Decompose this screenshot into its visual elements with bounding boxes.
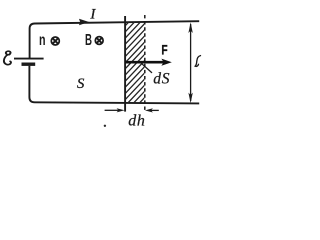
svg-text:S: S bbox=[77, 76, 85, 92]
hatched swept area dS bbox=[125, 4, 145, 124]
battery long plate bbox=[14, 58, 44, 60]
battery short thick plate bbox=[22, 62, 36, 65]
svg-text:n: n bbox=[39, 31, 46, 49]
svg-text:F: F bbox=[161, 42, 168, 58]
wire bottom bbox=[29, 66, 199, 104]
current arrow I bbox=[79, 19, 89, 26]
field into page symbol 1 bbox=[51, 37, 59, 45]
svg-text:dS: dS bbox=[153, 70, 170, 87]
field into page symbol 2 bbox=[95, 37, 103, 45]
svg-text:dh: dh bbox=[128, 112, 145, 129]
wire top bbox=[30, 21, 200, 58]
dimension arrows dh bbox=[105, 108, 159, 112]
conductor old position line bbox=[124, 16, 126, 112]
emf source label ℰ bbox=[4, 51, 11, 65]
conductor new position dashed line bbox=[144, 15, 146, 111]
stray ink dot bbox=[104, 125, 106, 127]
dimension line l bbox=[188, 22, 192, 103]
label l bbox=[195, 56, 200, 67]
svg-text:I: I bbox=[89, 7, 96, 23]
leader line for dS bbox=[141, 63, 152, 73]
force arrow F bbox=[125, 59, 172, 66]
svg-text:B: B bbox=[85, 31, 92, 49]
